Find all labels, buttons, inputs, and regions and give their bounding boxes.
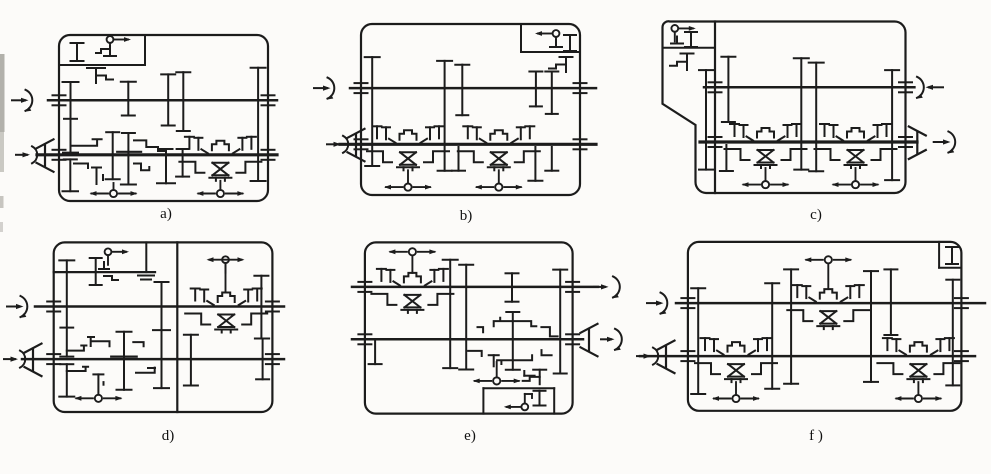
synchro cones [209, 163, 231, 181]
gearbox a inset box [59, 35, 145, 65]
shift indicator [834, 181, 878, 188]
gear hub d2 [153, 329, 170, 331]
gearbox c inner wall [714, 22, 716, 194]
bearing [47, 302, 60, 312]
bearing [709, 137, 722, 147]
aux shaft indicator [521, 394, 528, 410]
bevel input [16, 146, 37, 163]
shift indicator [744, 181, 788, 188]
synchronizer sleeve [910, 342, 927, 352]
bearing [566, 334, 579, 344]
gear [459, 265, 473, 370]
gear [794, 58, 809, 169]
gear [365, 57, 380, 166]
shaft [640, 355, 975, 358]
gear [63, 159, 79, 191]
bearing [266, 302, 279, 312]
bevel cone [37, 139, 54, 172]
synchro gears [185, 137, 256, 154]
synchronizer sleeve [212, 141, 229, 151]
synchronizer sleeve [728, 342, 745, 352]
gear with key [523, 370, 547, 385]
bearing [681, 351, 694, 361]
gear with key [549, 57, 573, 72]
gear [254, 276, 268, 339]
shift fork [541, 327, 557, 336]
synchro cones [488, 152, 510, 170]
shift fork [74, 164, 88, 169]
inset stem e [525, 394, 532, 398]
gear [176, 72, 190, 131]
bearing [955, 351, 968, 361]
gear [154, 282, 169, 388]
svg-text:b): b) [460, 208, 473, 224]
bevel input [327, 136, 348, 153]
synchro cones [725, 364, 747, 382]
rotation arrow [917, 77, 943, 98]
synchro cones [845, 150, 867, 168]
synchronizer sleeve [218, 293, 235, 303]
gear with key [87, 68, 113, 83]
gearbox d housing [54, 242, 273, 412]
shift fork [67, 346, 87, 351]
gear [784, 269, 798, 383]
bearing [566, 282, 579, 292]
bevel cone [909, 127, 926, 160]
shift stem [765, 168, 767, 181]
gear [720, 145, 733, 171]
shift indicator [806, 256, 850, 263]
gear [809, 63, 824, 172]
gearbox f housing [688, 242, 962, 411]
synchro brackets [367, 151, 449, 162]
bevel cone [658, 341, 675, 374]
aux shaft indicator [107, 36, 114, 52]
bearing [574, 83, 587, 93]
shift fork [497, 350, 551, 364]
output rotation arrow [594, 276, 620, 297]
gear [63, 82, 79, 153]
gearbox e housing [365, 242, 573, 413]
synchro gears [883, 338, 954, 355]
shift indicator [477, 184, 521, 191]
aux shaft indicator [553, 30, 560, 46]
inset gear e [534, 391, 546, 406]
shift indicator [386, 184, 430, 191]
shift fork [88, 337, 110, 346]
synchro brackets [877, 363, 959, 374]
gear [59, 364, 74, 396]
shaft [48, 99, 277, 102]
shift fork [92, 168, 103, 185]
shaft [22, 358, 284, 361]
inset gear f [946, 247, 958, 264]
shift stem [219, 181, 221, 190]
synchronizer sleeve [404, 273, 421, 283]
shift fork [71, 139, 102, 146]
aux shaft indicator [671, 25, 678, 41]
gear [176, 149, 189, 177]
svg-text:f ): f ) [809, 428, 823, 444]
bearing [53, 150, 66, 160]
shift fork [134, 140, 166, 151]
gear [121, 82, 136, 116]
shift stem [827, 263, 829, 289]
bearing [681, 298, 694, 308]
shift indicator [198, 190, 242, 197]
bearing [262, 95, 275, 105]
shift indicator [390, 248, 434, 255]
bearing [574, 139, 587, 149]
shaft [352, 338, 583, 341]
bearing [899, 137, 912, 147]
shift fork [134, 164, 149, 171]
bearing [355, 83, 368, 93]
gear [437, 61, 452, 171]
gear hub a [64, 118, 77, 120]
output rotation e [601, 338, 611, 340]
sliding sleeve a [117, 151, 141, 153]
shift stem [498, 170, 500, 183]
synchro gears [191, 289, 262, 306]
output rotation c [934, 141, 947, 143]
gearbox a housing [59, 35, 268, 201]
bevel input [4, 351, 25, 368]
synchro gears [463, 126, 534, 143]
gear [452, 147, 465, 171]
synchro cones [401, 295, 423, 313]
shaft [54, 271, 155, 273]
gear [765, 283, 779, 389]
shift fork [478, 327, 484, 332]
shaft [700, 140, 917, 143]
synchro brackets [179, 162, 261, 173]
shift fork [133, 342, 143, 346]
aux gear d [90, 258, 102, 285]
shift fork [67, 367, 88, 371]
synchro cones [397, 152, 419, 170]
gear [106, 132, 120, 179]
synchro brackets [185, 314, 267, 325]
shift stem [917, 382, 919, 395]
inset gear a [71, 43, 84, 61]
aux support d [138, 242, 154, 279]
aux pinion d [99, 262, 118, 280]
synchronizer sleeve [400, 130, 417, 140]
synchro cones [215, 315, 237, 333]
shift indicator [714, 395, 758, 402]
gear [506, 273, 519, 301]
gearbox c housing [662, 21, 905, 193]
synchro gears [377, 269, 448, 286]
synchro gears [701, 338, 772, 355]
bearing [358, 334, 371, 344]
shaft [704, 86, 914, 89]
shift indicator [475, 377, 519, 384]
bevel cone [348, 129, 365, 162]
inset pinion c [671, 37, 683, 44]
shaft [676, 302, 985, 305]
gear [369, 339, 382, 364]
synchronizer sleeve [757, 128, 774, 138]
gear [117, 332, 132, 390]
shaft [37, 153, 277, 156]
bearing [262, 150, 275, 160]
scan artifact strip [0, 54, 5, 132]
gearbox d divider [176, 242, 178, 412]
gear with key [670, 54, 694, 71]
bearing [899, 82, 912, 92]
svg-text:d): d) [162, 428, 175, 444]
gear [545, 147, 558, 171]
synchro gears [793, 285, 864, 302]
gear [553, 270, 567, 374]
gearbox c compartment line [663, 47, 716, 49]
synchro brackets [787, 310, 869, 321]
synchro stem d [225, 263, 227, 292]
synchro cones [817, 311, 839, 329]
gear [885, 70, 899, 180]
synchro brackets [725, 149, 807, 160]
shift stem [735, 382, 737, 395]
gear [251, 68, 266, 181]
synchronizer sleeve [847, 128, 864, 138]
gear hub d [60, 327, 73, 329]
shift e [496, 362, 498, 377]
shift stem [411, 255, 413, 273]
gear [691, 288, 705, 394]
gear [699, 70, 713, 170]
shaft [352, 286, 598, 289]
synchro brackets [695, 363, 777, 374]
synchro brackets [815, 149, 897, 160]
bearing [53, 95, 66, 105]
gear [256, 339, 269, 380]
bearing [266, 354, 279, 364]
aux shaft indicator [105, 248, 112, 264]
gearbox b inset box [521, 24, 580, 52]
synchro gears [373, 126, 444, 143]
gear [161, 74, 175, 125]
gearbox e inset box [483, 388, 554, 413]
svg-text:c): c) [810, 207, 822, 223]
bevel cone [581, 324, 598, 357]
gear [529, 72, 542, 107]
inset pinion a [96, 46, 116, 56]
shaft [340, 143, 596, 146]
input rotation arrow [7, 296, 27, 317]
shift indicator [92, 190, 136, 197]
gear [528, 147, 542, 181]
input rotation arrow [12, 90, 32, 111]
synchro gears [820, 124, 891, 141]
gear [864, 271, 878, 382]
inset gear c [685, 32, 697, 47]
shift fork [468, 351, 482, 356]
sliding sleeve d [111, 356, 137, 358]
shaft [35, 305, 284, 308]
inset gear b [564, 35, 576, 51]
gear [946, 280, 959, 386]
bearing [709, 82, 722, 92]
gear [59, 260, 74, 356]
svg-text:a): a) [160, 206, 172, 222]
shift gear d [93, 374, 103, 394]
gearbox b housing [361, 24, 580, 195]
input rotation arrow [314, 78, 334, 99]
shift fork [494, 318, 537, 327]
aux shaft indicator [222, 256, 229, 272]
gear [545, 72, 558, 114]
svg-text:e): e) [464, 428, 476, 444]
bevel input [637, 348, 658, 365]
shift fork [136, 368, 155, 373]
synchro gears [730, 124, 801, 141]
shift indicator [896, 395, 940, 402]
inset nub e [524, 371, 534, 376]
gear [184, 335, 198, 386]
inset pinion b [550, 40, 562, 47]
synchro brackets [458, 151, 540, 162]
bearing [358, 282, 371, 292]
shift stem [855, 168, 857, 181]
synchronizer sleeve [490, 130, 507, 140]
shaft [350, 87, 596, 90]
gear [721, 57, 735, 122]
gear [884, 269, 897, 335]
synchro cones [755, 150, 777, 168]
gear [506, 312, 520, 370]
input rotation arrow [647, 293, 667, 314]
synchro cones [907, 364, 929, 382]
gear [455, 65, 469, 116]
gear [443, 260, 458, 368]
gear [121, 133, 136, 185]
shift indicator [76, 395, 120, 402]
cluster gear e [489, 355, 499, 366]
bearing [355, 139, 368, 149]
bearing [47, 354, 60, 364]
synchro brackets [371, 294, 453, 305]
gear [157, 149, 175, 183]
bevel cone [25, 344, 42, 377]
shift stem [407, 170, 409, 183]
synchronizer sleeve [820, 289, 837, 299]
bearing [955, 298, 968, 308]
gearbox f inset box [939, 242, 961, 268]
shift a left [113, 183, 115, 190]
